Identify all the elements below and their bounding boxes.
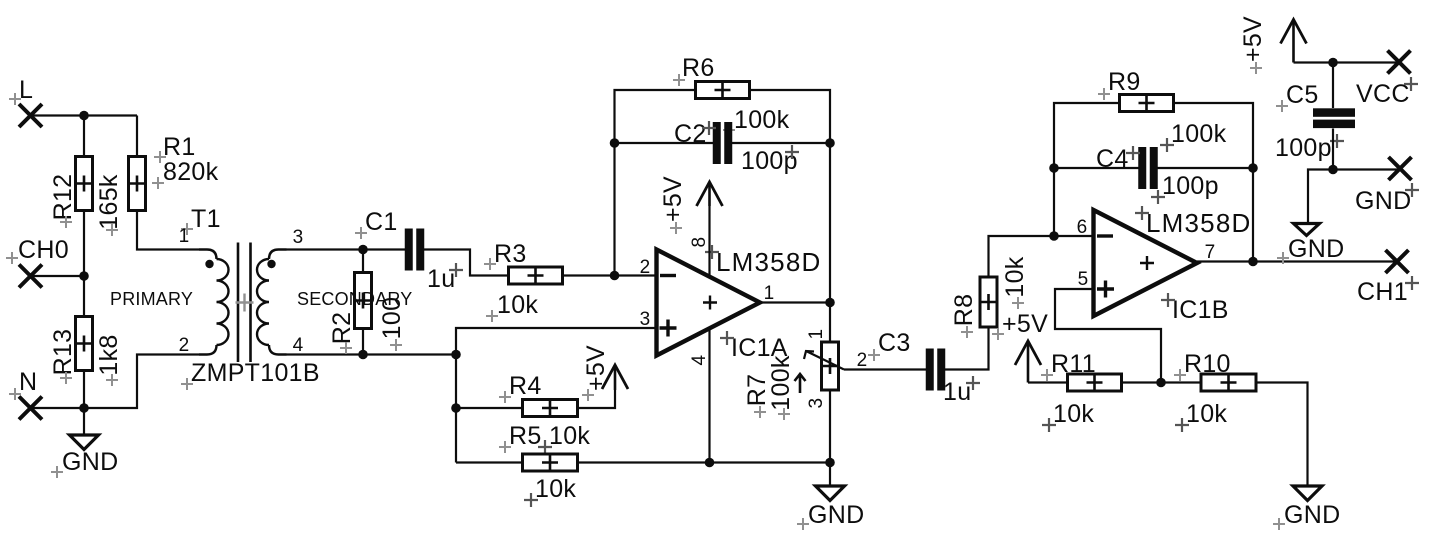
anchor mark C3 bbox=[868, 349, 880, 361]
wire R8 top to pin6 bbox=[989, 236, 1094, 277]
anchor mark 100p C2 bbox=[785, 145, 799, 159]
pin 3 T1 bbox=[293, 227, 304, 248]
anchor mark +5V IC1A bbox=[670, 222, 682, 234]
label 1k8 bbox=[95, 334, 123, 375]
anchor mark T1 center bbox=[236, 294, 254, 312]
anchor mark C1 bbox=[355, 227, 367, 239]
label 10k R5 bbox=[535, 475, 576, 503]
wire R7 bottom bbox=[829, 390, 831, 463]
capacitor C5 bbox=[1313, 108, 1355, 128]
label LM358D IC1B bbox=[1146, 208, 1251, 238]
label R10 bbox=[1184, 350, 1231, 378]
pin 4 T1 bbox=[293, 335, 304, 356]
junction R2 bottom bbox=[358, 350, 368, 360]
label GND right-top bbox=[1288, 235, 1344, 263]
wire R3 right bbox=[562, 274, 656, 276]
junction R11/R10 bbox=[1156, 378, 1166, 388]
anchor mark GND term bbox=[1405, 183, 1419, 197]
wire C2R6 left column bbox=[615, 90, 697, 276]
junction pin4 bottom bbox=[705, 458, 715, 468]
label SECONDARY bbox=[297, 289, 413, 309]
svg-text:GND: GND bbox=[1288, 235, 1344, 263]
anchor mark R1 bbox=[154, 151, 166, 163]
capacitor C1 bbox=[405, 229, 425, 271]
svg-text:100p: 100p bbox=[1275, 134, 1332, 162]
label LM358D IC1A bbox=[716, 247, 821, 277]
resistor R11 bbox=[1068, 374, 1122, 391]
wire C1 right to R3 bbox=[424, 250, 509, 276]
anchor mark IC1B bbox=[1161, 293, 1175, 307]
svg-text:6: 6 bbox=[1077, 217, 1088, 238]
junction out IC1B bbox=[1248, 257, 1258, 267]
wire R13 bottom bbox=[83, 370, 85, 408]
anchor mark 165k bbox=[106, 224, 118, 236]
transformer T1 core bbox=[238, 243, 251, 363]
power +5V IC1A bbox=[697, 182, 723, 206]
label R9 bbox=[1108, 68, 1141, 96]
label PRIMARY bbox=[110, 289, 193, 309]
wire R2 bottom bbox=[362, 329, 364, 355]
anchor mark +5V R4 bbox=[582, 389, 594, 401]
label C4 bbox=[1096, 145, 1129, 173]
pin 4 IC1A bbox=[689, 354, 710, 365]
resistor R3 bbox=[509, 267, 563, 284]
label R12 bbox=[49, 174, 77, 221]
anchor mark R9 bbox=[1098, 88, 1110, 100]
label R8 bbox=[950, 294, 978, 327]
svg-text:CH0: CH0 bbox=[18, 236, 69, 264]
anchor mark 10k R3 bbox=[486, 310, 498, 322]
svg-text:820k: 820k bbox=[163, 158, 219, 186]
svg-text:L: L bbox=[19, 76, 33, 104]
svg-text:R3: R3 bbox=[494, 240, 527, 268]
wire R10 right to GND bbox=[1256, 383, 1308, 487]
wire VCC row bbox=[1294, 61, 1398, 63]
pin 1 T1 bbox=[179, 226, 190, 247]
pin 2 IC1A bbox=[640, 257, 651, 278]
power +5V VCC bbox=[1281, 20, 1307, 63]
anchor mark R11 bbox=[1041, 369, 1053, 381]
label 100p C4 bbox=[1162, 172, 1219, 200]
label +5V R4 bbox=[582, 345, 610, 391]
label +5V VCC bbox=[1239, 16, 1267, 62]
anchor mark 100p C5 bbox=[1330, 134, 1344, 148]
wire pin8 IC1A bbox=[708, 206, 710, 277]
wire R2 top bbox=[362, 250, 364, 273]
svg-text:+5V: +5V bbox=[1002, 310, 1048, 338]
label 100p C2 bbox=[741, 147, 798, 175]
wire R12 top bbox=[83, 116, 85, 158]
svg-text:C5: C5 bbox=[1286, 81, 1319, 109]
label R1 bbox=[163, 133, 196, 161]
junction C1/R2 top bbox=[358, 245, 368, 255]
svg-text:100k: 100k bbox=[1171, 120, 1227, 148]
label 100k R9 bbox=[1171, 120, 1227, 148]
label 1u C3 bbox=[943, 378, 971, 406]
svg-text:10k: 10k bbox=[1186, 400, 1227, 428]
wire pin3 IC1A bbox=[456, 328, 656, 463]
label 820k bbox=[163, 158, 219, 186]
resistor R12 bbox=[76, 157, 93, 211]
pin 8 IC1A bbox=[689, 237, 710, 248]
svg-text:ZMPT101B: ZMPT101B bbox=[191, 359, 320, 387]
junction CH0/R13 bbox=[79, 271, 89, 281]
op-amp IC1B U2 bbox=[1094, 210, 1198, 316]
anchor mark T1 bbox=[181, 223, 193, 235]
pin 2 T1 bbox=[179, 335, 190, 356]
label GND right-bottom bbox=[1284, 501, 1340, 529]
anchor mark C2 bbox=[702, 121, 716, 135]
label R7 bbox=[743, 374, 771, 407]
anchor mark 820k bbox=[152, 177, 164, 189]
wire pin4 IC1A bbox=[708, 329, 710, 463]
wire C5 top bbox=[1332, 63, 1334, 109]
anchor mark 100k R6 bbox=[723, 124, 735, 136]
anchor mark GND left bbox=[51, 466, 63, 478]
resistor R2 bbox=[355, 273, 372, 329]
wire R11 left bbox=[1028, 381, 1068, 383]
anchor mark VCC bbox=[1404, 77, 1418, 91]
label C3 bbox=[878, 329, 911, 357]
svg-text:R10: R10 bbox=[1184, 350, 1231, 378]
label 1u C1 bbox=[427, 265, 455, 293]
anchor mark C4 bbox=[1126, 146, 1140, 160]
svg-text:GND: GND bbox=[1355, 187, 1411, 215]
label +5V IC1A bbox=[659, 176, 687, 222]
svg-text:100k: 100k bbox=[767, 355, 795, 411]
pin 3 R7 bbox=[806, 398, 827, 409]
wire C3 right to R8 bbox=[945, 354, 989, 370]
resistor R6 bbox=[696, 82, 750, 99]
svg-text:10k: 10k bbox=[549, 422, 590, 450]
anchor mark R10 bbox=[1174, 369, 1186, 381]
svg-text:10k: 10k bbox=[1053, 400, 1094, 428]
capacitor C3 bbox=[926, 349, 946, 391]
svg-text:165k: 165k bbox=[95, 174, 123, 230]
anchor mark 100k R9 bbox=[1160, 138, 1174, 152]
svg-text:PRIMARY: PRIMARY bbox=[110, 289, 193, 309]
wire C2 right bbox=[732, 142, 830, 144]
wire GND stub left bbox=[83, 408, 85, 435]
svg-text:GND: GND bbox=[808, 501, 864, 529]
ground GND right-top bbox=[1294, 224, 1320, 236]
svg-text:R12: R12 bbox=[49, 174, 77, 221]
svg-text:100k: 100k bbox=[734, 106, 790, 134]
label R4 bbox=[509, 372, 542, 400]
anchor mark 100k R7 bbox=[778, 408, 790, 420]
anchor mark +5V VCC bbox=[1250, 62, 1262, 74]
label 165k bbox=[95, 174, 123, 230]
pin 1 IC1A bbox=[764, 283, 775, 304]
label R5 bbox=[509, 422, 542, 450]
svg-text:10k: 10k bbox=[497, 291, 538, 319]
svg-text:C1: C1 bbox=[365, 208, 398, 236]
anchor mark GND rt bbox=[1277, 252, 1289, 264]
wire R6 right bbox=[749, 90, 830, 303]
wire R11 right bbox=[1121, 381, 1201, 383]
wire R4 right bbox=[578, 390, 616, 408]
anchor mark R13 bbox=[60, 372, 72, 384]
wire N row bbox=[31, 407, 85, 409]
junction R3/C2 column bbox=[610, 271, 620, 281]
svg-text:+5V: +5V bbox=[582, 345, 610, 391]
label R13 bbox=[49, 329, 77, 376]
anchor mark L bbox=[9, 93, 21, 105]
junction GND mid bbox=[825, 458, 835, 468]
anchor mark 10k R4 bbox=[538, 440, 552, 454]
svg-text:R11: R11 bbox=[1051, 350, 1096, 378]
anchor mark 1u C3 bbox=[966, 376, 980, 390]
svg-text:LM358D: LM358D bbox=[1146, 208, 1251, 238]
wire pin7 IC1B bbox=[1197, 260, 1395, 262]
anchor mark R2 bbox=[340, 342, 352, 354]
label 10k R3 bbox=[497, 291, 538, 319]
svg-text:4: 4 bbox=[293, 335, 304, 356]
wire C4 right bbox=[1157, 167, 1253, 169]
ground GND right-bottom bbox=[1293, 486, 1322, 501]
label 10k R10 bbox=[1186, 400, 1227, 428]
anchor mark R4 bbox=[499, 391, 511, 403]
wire R9C4 left column bbox=[1054, 103, 1120, 236]
svg-text:VCC: VCC bbox=[1356, 80, 1410, 108]
svg-text:R5: R5 bbox=[509, 422, 542, 450]
pin 2 R7 bbox=[857, 350, 868, 371]
wire GND stub mid bbox=[829, 463, 831, 487]
wire R7 wiper to C3 bbox=[844, 368, 926, 370]
anchor mark R5 bbox=[499, 441, 511, 453]
svg-text:+5V: +5V bbox=[659, 176, 687, 222]
label GND left bbox=[62, 448, 118, 476]
svg-text:3: 3 bbox=[806, 398, 827, 409]
anchor mark N bbox=[9, 388, 21, 400]
label 100k R7 bbox=[767, 355, 795, 411]
anchor mark 10k R10 bbox=[1175, 418, 1189, 432]
ground GND left bbox=[70, 435, 99, 450]
label R2 bbox=[328, 312, 356, 345]
label 10k R11 bbox=[1053, 400, 1094, 428]
wire C1 left bbox=[363, 248, 405, 250]
label ZMPT101B bbox=[191, 359, 320, 387]
svg-text:10k: 10k bbox=[1001, 256, 1029, 297]
svg-text:R9: R9 bbox=[1108, 68, 1141, 96]
anchor mark R3 bbox=[484, 258, 496, 270]
anchor mark 100 R2 bbox=[390, 339, 402, 351]
svg-text:IC1B: IC1B bbox=[1172, 296, 1229, 324]
svg-text:R2: R2 bbox=[328, 312, 356, 345]
junction VCC/C5 bbox=[1328, 58, 1338, 68]
power +5V R4 bbox=[602, 365, 628, 390]
junction out IC1A bbox=[825, 298, 835, 308]
wire C4 left bbox=[1054, 167, 1139, 169]
svg-text:2: 2 bbox=[179, 335, 190, 356]
label 100 bbox=[378, 297, 406, 340]
label C2 bbox=[674, 120, 707, 148]
node N terminal bbox=[19, 368, 42, 420]
anchor mark 1u C1 bbox=[449, 263, 463, 277]
svg-text:4: 4 bbox=[689, 354, 710, 365]
svg-text:2: 2 bbox=[857, 350, 868, 371]
wire R5 left bbox=[456, 461, 523, 463]
resistor R1 bbox=[129, 157, 146, 211]
anchor mark R8 bbox=[961, 326, 973, 338]
svg-text:R13: R13 bbox=[49, 329, 77, 376]
power +5V R11 bbox=[1015, 341, 1041, 383]
wire R9 right bbox=[1173, 103, 1253, 262]
capacitor C2 bbox=[713, 122, 733, 164]
anchor mark +5V R11 bbox=[992, 328, 1004, 340]
svg-text:LM358D: LM358D bbox=[716, 247, 821, 277]
svg-text:3: 3 bbox=[640, 309, 651, 330]
junction C2 left bbox=[610, 138, 620, 148]
resistor R13 bbox=[76, 317, 93, 371]
label GND mid bbox=[808, 501, 864, 529]
label 100k R6 bbox=[734, 106, 790, 134]
wire pin5 IC1B bbox=[1055, 289, 1161, 383]
anchor mark R7 bbox=[754, 406, 766, 418]
anchor mark IC1A bbox=[720, 331, 734, 345]
resistor R10 bbox=[1201, 374, 1256, 391]
wire CH0 row bbox=[31, 275, 85, 277]
anchor mark 10k R11 bbox=[1042, 418, 1056, 432]
svg-text:1k8: 1k8 bbox=[95, 334, 123, 375]
resistor R9 bbox=[1120, 95, 1174, 112]
svg-text:C4: C4 bbox=[1096, 145, 1129, 173]
anchor mark C5 bbox=[1276, 100, 1288, 112]
potentiometer R7 bbox=[795, 342, 845, 393]
resistor R5 bbox=[523, 454, 578, 471]
junction L/R12 bbox=[79, 111, 89, 121]
svg-text:1: 1 bbox=[179, 226, 190, 247]
wire C2 left bbox=[615, 142, 714, 144]
svg-text:1: 1 bbox=[764, 283, 775, 304]
node GND terminal bbox=[1355, 157, 1412, 215]
anchor mark R12 bbox=[60, 216, 72, 228]
label T1 bbox=[191, 205, 221, 233]
label IC1B bbox=[1172, 296, 1229, 324]
svg-text:1: 1 bbox=[806, 329, 827, 340]
svg-text:3: 3 bbox=[293, 227, 304, 248]
label R11 bbox=[1051, 350, 1096, 378]
transformer T1 secondary polarity dot bbox=[267, 260, 275, 268]
junction pin6 bbox=[1049, 231, 1059, 241]
op-amp IC1A U1 bbox=[657, 250, 761, 356]
wire R12 bottom bbox=[83, 210, 85, 276]
anchor mark 10k R5 bbox=[524, 493, 538, 507]
svg-text:2: 2 bbox=[640, 257, 651, 278]
resistor R8 bbox=[980, 277, 997, 327]
svg-text:R6: R6 bbox=[682, 54, 715, 82]
label C5 bbox=[1286, 81, 1319, 109]
transformer T1 primary winding bbox=[199, 250, 229, 355]
node L terminal bbox=[19, 76, 42, 127]
svg-text:R1: R1 bbox=[163, 133, 196, 161]
svg-text:SECONDARY: SECONDARY bbox=[297, 289, 413, 309]
svg-text:C2: C2 bbox=[674, 120, 707, 148]
anchor mark CH0 bbox=[6, 252, 18, 264]
anchor mark LM358D IC1B bbox=[1135, 206, 1149, 220]
wire C5 bottom bbox=[1332, 129, 1334, 170]
resistor R4 bbox=[523, 400, 578, 417]
label 10k R4 bbox=[549, 422, 590, 450]
pin 3 IC1A bbox=[640, 309, 651, 330]
junction C4 right bbox=[1248, 163, 1258, 173]
svg-text:8: 8 bbox=[689, 237, 710, 248]
wire pin1 IC1A bbox=[760, 301, 830, 303]
node CH1 terminal bbox=[1357, 250, 1409, 306]
label 10k R8 bbox=[1001, 256, 1029, 297]
svg-text:7: 7 bbox=[1205, 242, 1216, 263]
transformer T1 secondary winding bbox=[257, 250, 287, 355]
anchor mark GND mid bbox=[797, 518, 809, 530]
svg-text:CH1: CH1 bbox=[1357, 278, 1408, 306]
wire T1 pin3 to C1 node bbox=[287, 248, 364, 250]
svg-text:10k: 10k bbox=[535, 475, 576, 503]
junction C2 right bbox=[825, 138, 835, 148]
wire T1 pin4 row bbox=[287, 353, 364, 355]
svg-text:GND: GND bbox=[62, 448, 118, 476]
wire R5 right bbox=[578, 461, 831, 463]
svg-text:GND: GND bbox=[1284, 501, 1340, 529]
wire R8 bottom bbox=[987, 327, 989, 354]
node VCC terminal bbox=[1356, 51, 1411, 109]
capacitor C4 bbox=[1138, 147, 1158, 189]
svg-text:+5V: +5V bbox=[1239, 16, 1267, 62]
node CH0 terminal bbox=[18, 236, 69, 288]
pin 6 IC1B bbox=[1077, 217, 1088, 238]
junction C4 left bbox=[1049, 163, 1059, 173]
wire R4 left bbox=[456, 407, 522, 409]
ground GND mid bbox=[816, 486, 845, 501]
wire pin4 row to pin3 column bbox=[363, 353, 456, 355]
label 100p C5 bbox=[1275, 134, 1332, 162]
label R6 bbox=[682, 54, 715, 82]
pin 1 R7 bbox=[806, 329, 827, 340]
pin 7 IC1B bbox=[1205, 242, 1216, 263]
wire GND row right bbox=[1333, 168, 1397, 170]
wire R13 top bbox=[83, 276, 85, 317]
anchor mark 10k R8 bbox=[1012, 297, 1024, 309]
svg-text:N: N bbox=[19, 368, 37, 396]
label C1 bbox=[365, 208, 398, 236]
junction N/GND bbox=[79, 403, 89, 413]
svg-text:T1: T1 bbox=[191, 205, 221, 233]
label +5V R11 bbox=[1002, 310, 1048, 338]
anchor mark GND rb bbox=[1273, 518, 1285, 530]
svg-text:C3: C3 bbox=[878, 329, 911, 357]
transformer T1 primary polarity dot bbox=[205, 260, 213, 268]
anchor mark LM358D IC1A bbox=[705, 245, 719, 259]
wire R1 top bbox=[136, 116, 138, 157]
svg-text:5: 5 bbox=[1078, 269, 1089, 290]
wire L row bbox=[31, 114, 138, 116]
svg-text:R4: R4 bbox=[509, 372, 542, 400]
wire T1 pin2 bbox=[84, 355, 199, 409]
junction pin3/pin4row bbox=[451, 350, 461, 360]
svg-text:100p: 100p bbox=[1162, 172, 1219, 200]
anchor mark R6 bbox=[673, 74, 685, 86]
junction C5/GND bbox=[1328, 165, 1338, 175]
pin 5 IC1B bbox=[1078, 269, 1089, 290]
junction R4 left bbox=[451, 403, 461, 413]
wire out to R7 bbox=[829, 303, 831, 343]
label R3 bbox=[494, 240, 527, 268]
wire R1 bottom to T1 pin1 bbox=[137, 211, 199, 250]
anchor mark ZMPT101B bbox=[181, 378, 193, 390]
anchor mark CH1 bbox=[1405, 276, 1419, 290]
label IC1A bbox=[731, 334, 788, 362]
anchor mark 1k8 bbox=[106, 374, 118, 386]
svg-text:R8: R8 bbox=[950, 294, 978, 327]
